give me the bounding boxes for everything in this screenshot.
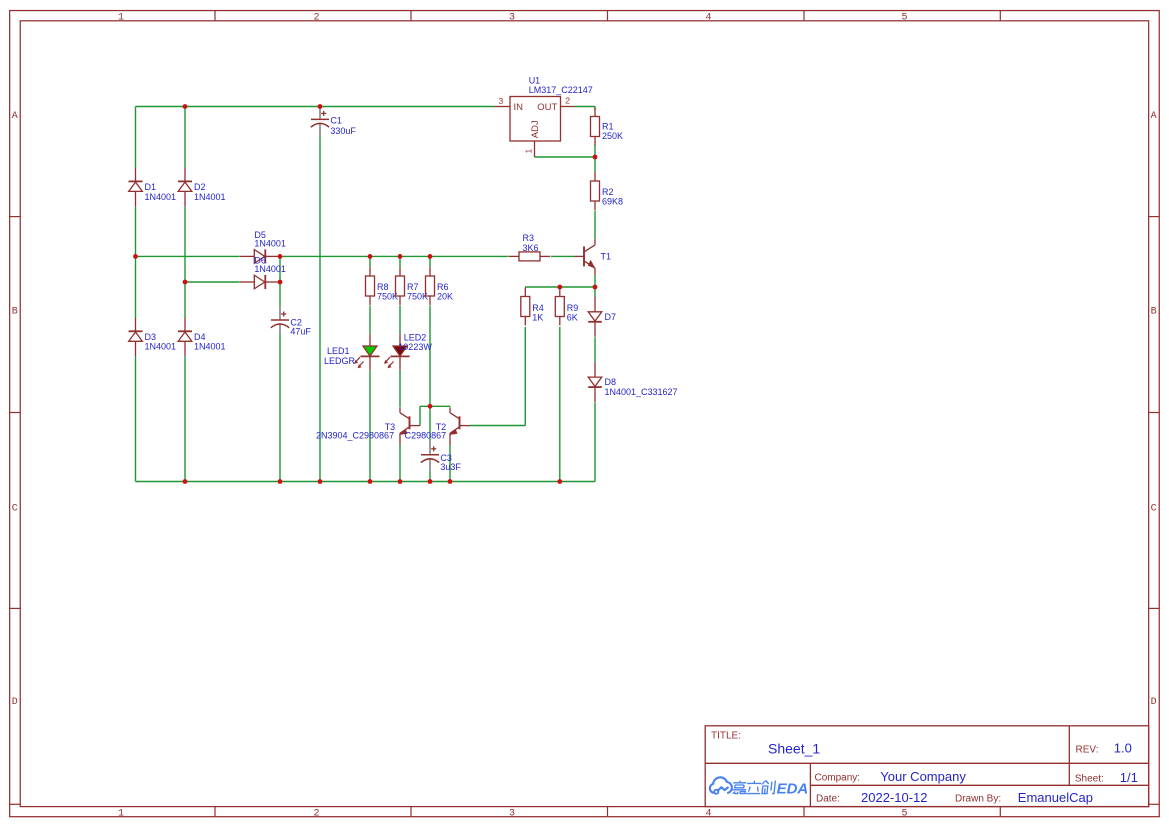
svg-text:5: 5 [901,12,907,23]
svg-text:3: 3 [509,808,515,819]
svg-text:1N4001: 1N4001 [145,342,177,352]
svg-text:C: C [12,504,18,515]
svg-text:Sheet:: Sheet: [1075,774,1104,785]
svg-text:Company:: Company: [815,773,861,784]
svg-text:10223W: 10223W [398,342,432,352]
svg-text:LEDGR: LEDGR [324,356,356,366]
svg-text:D8: D8 [605,377,617,387]
svg-text:1K: 1K [532,313,543,323]
svg-text:R9: R9 [567,303,579,313]
svg-text:R8: R8 [377,282,389,292]
svg-text:3: 3 [499,96,504,106]
svg-text:1N4001: 1N4001 [254,264,286,274]
svg-text:4: 4 [705,12,711,23]
svg-text:2: 2 [313,12,319,23]
svg-text:2: 2 [313,808,319,819]
svg-text:U1: U1 [529,76,541,86]
svg-text:1: 1 [524,149,534,154]
svg-text:D7: D7 [605,312,617,322]
svg-text:D3: D3 [145,332,157,342]
svg-text:R4: R4 [532,303,544,313]
svg-text:ADJ: ADJ [530,120,541,138]
svg-text:R2: R2 [602,187,614,197]
svg-text:Your Company: Your Company [880,769,966,784]
svg-text:6K: 6K [567,313,578,323]
svg-text:250K: 250K [602,131,623,141]
svg-text:Date:: Date: [816,794,840,805]
svg-text:C: C [1151,504,1157,515]
svg-text:3K6: 3K6 [523,243,539,253]
svg-text:3u3F: 3u3F [440,462,461,472]
svg-text:20K: 20K [437,292,453,302]
svg-text:EmanuelCap: EmanuelCap [1018,790,1093,805]
svg-text:2: 2 [565,96,570,106]
svg-text:OUT: OUT [537,102,557,113]
svg-text:A: A [1151,111,1157,122]
svg-text:Drawn By:: Drawn By: [955,794,1001,805]
svg-text:D4: D4 [194,332,206,342]
svg-text:D: D [1151,697,1157,708]
svg-text:R1: R1 [602,122,614,132]
svg-text:330uF: 330uF [330,126,356,136]
svg-text:REV:: REV: [1076,744,1099,755]
svg-text:R3: R3 [523,233,535,243]
svg-text:1N4001: 1N4001 [194,342,226,352]
svg-text:B: B [12,307,18,318]
svg-text:2022-10-12: 2022-10-12 [861,790,928,805]
svg-text:C1: C1 [330,115,342,125]
svg-text:1N4001: 1N4001 [194,192,226,202]
svg-text:2N3904_C2980867: 2N3904_C2980867 [316,431,394,441]
svg-text:R7: R7 [407,282,419,292]
svg-text:D: D [12,697,18,708]
svg-text:D2: D2 [194,182,206,192]
svg-text:1N4001: 1N4001 [254,239,286,249]
svg-text:T1: T1 [601,251,612,261]
svg-text:47uF: 47uF [290,326,311,336]
svg-text:TITLE:: TITLE: [711,731,741,742]
svg-text:4: 4 [705,808,711,819]
svg-text:A: A [12,111,18,122]
svg-text:LM317_C22147: LM317_C22147 [529,85,593,95]
svg-text:1/1: 1/1 [1120,770,1138,785]
svg-text:5: 5 [901,808,907,819]
svg-text:69K8: 69K8 [602,197,623,207]
svg-text:LED2: LED2 [404,332,427,342]
svg-text:R6: R6 [437,282,449,292]
svg-text:1N4001: 1N4001 [145,192,177,202]
svg-text:1: 1 [118,12,124,23]
svg-text:B: B [1151,307,1157,318]
svg-text:1.0: 1.0 [1114,740,1132,755]
svg-text:Sheet_1: Sheet_1 [768,740,820,756]
svg-text:C2980867: C2980867 [405,431,447,441]
svg-text:3: 3 [509,12,515,23]
svg-text:D1: D1 [145,182,157,192]
svg-text:1: 1 [118,808,124,819]
svg-text:EDA: EDA [777,780,809,797]
svg-text:LED1: LED1 [327,346,350,356]
svg-text:1N4001_C331627: 1N4001_C331627 [605,387,678,397]
svg-text:IN: IN [514,102,524,113]
